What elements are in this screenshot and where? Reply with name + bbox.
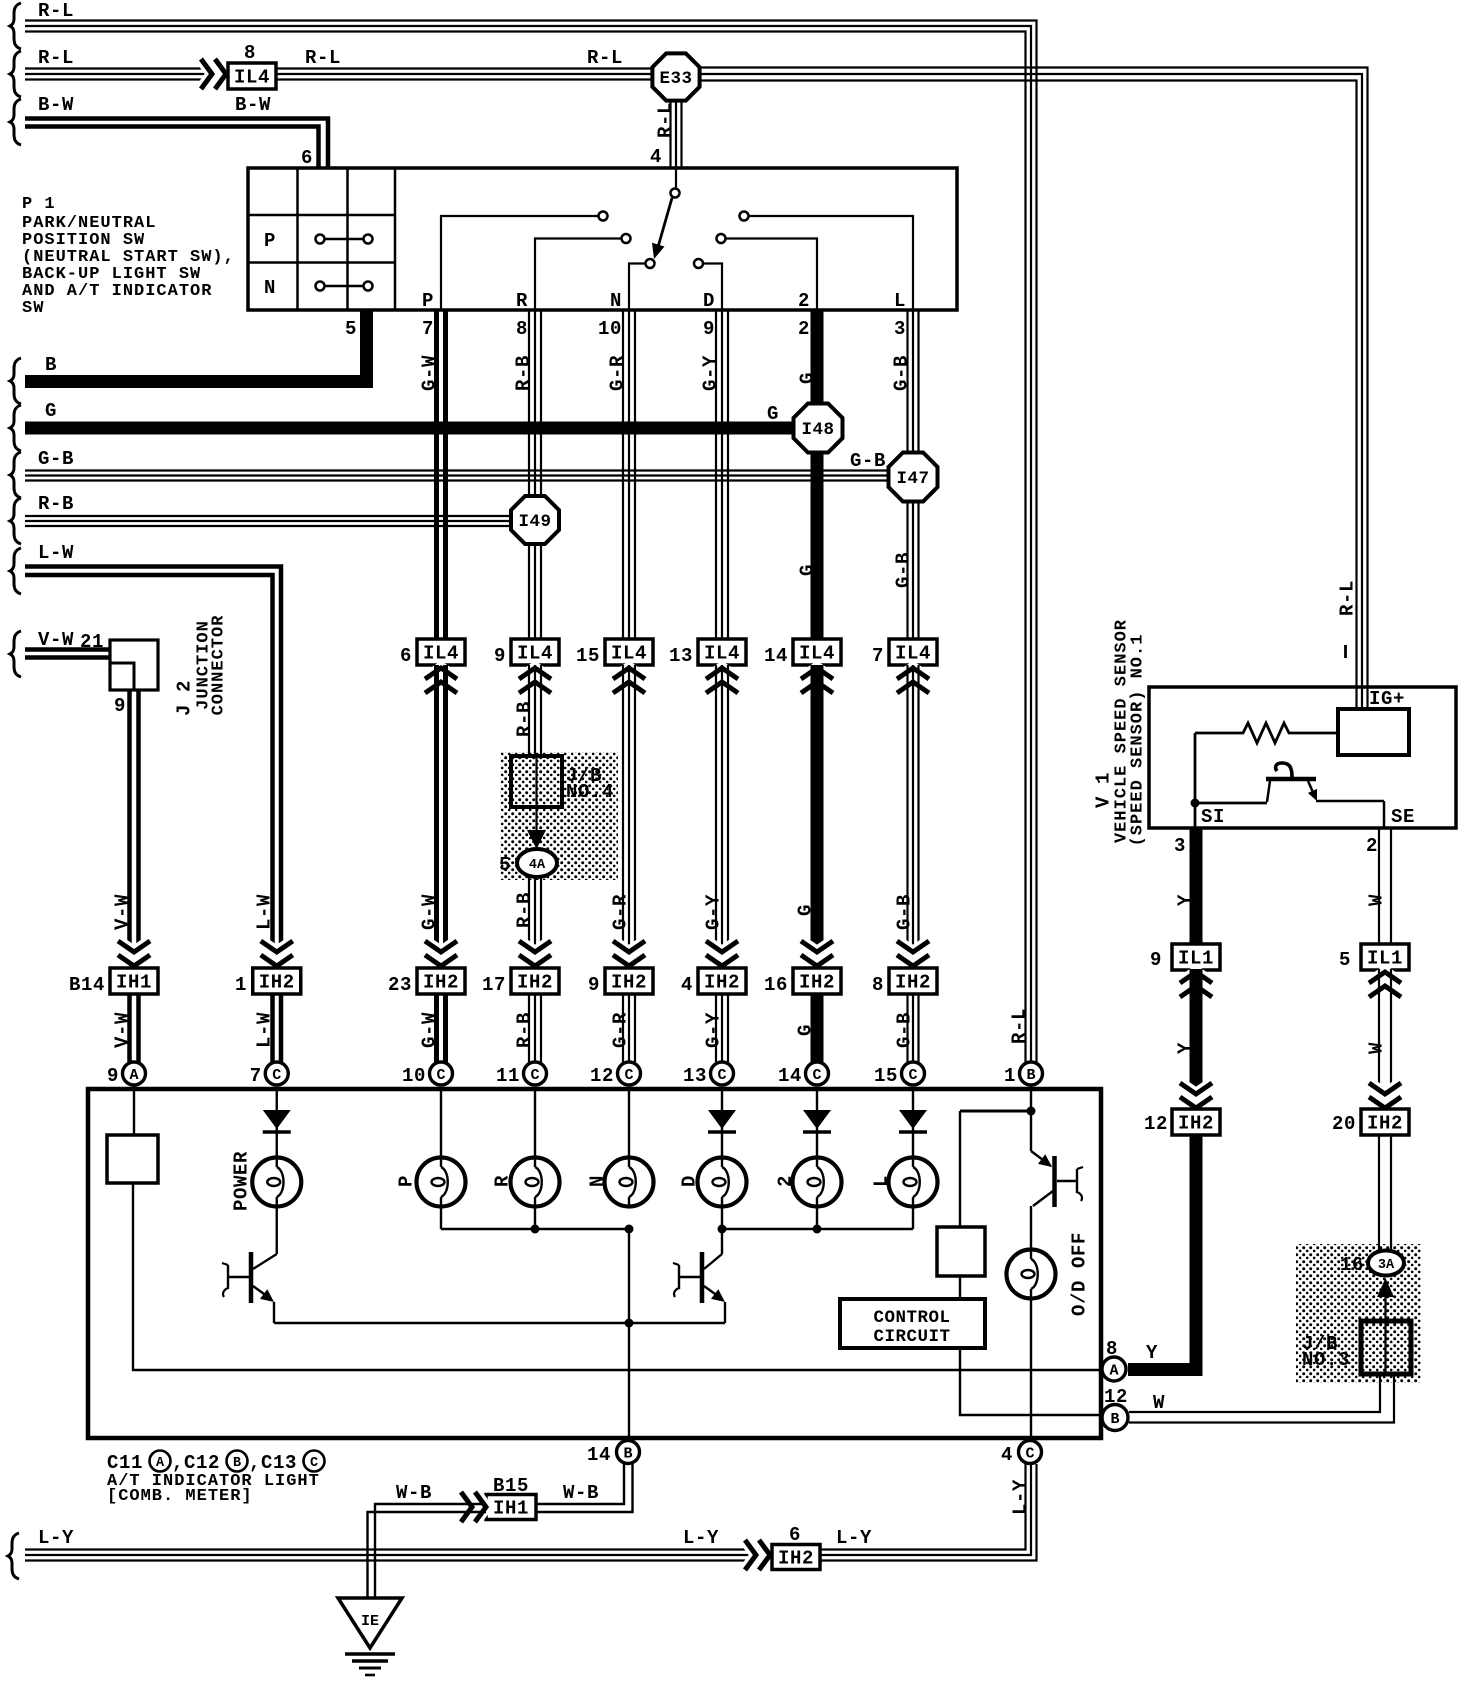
pin 15 label	[576, 645, 600, 667]
arrows from IL1 pin9	[1180, 972, 1212, 997]
pin 5 label at 4A	[499, 854, 511, 876]
connector IL4 pin7	[889, 639, 937, 665]
wire L-W	[25, 567, 281, 969]
svg-text:B: B	[45, 354, 57, 376]
pin 9 IL4 label	[494, 645, 506, 667]
svg-text:V-W: V-W	[112, 1012, 134, 1048]
label VEHICLE SPEED SENSOR rotated	[1112, 619, 1131, 843]
svg-text:G-B: G-B	[38, 448, 74, 470]
svg-text:14: 14	[778, 1065, 802, 1087]
label G-W rotated mid	[419, 894, 441, 930]
svg-text:6: 6	[400, 645, 412, 667]
wire Q2 emitter to N column	[629, 1322, 725, 1324]
terminal 14(B) meter bottom	[587, 1441, 640, 1467]
wire through J/B No.4	[535, 756, 537, 831]
svg-text:R-L: R-L	[305, 47, 341, 69]
label R-L row2	[38, 47, 74, 69]
label G before I48	[767, 403, 779, 425]
pin 20 label	[1332, 1113, 1356, 1135]
connector IL4 pin6	[417, 639, 465, 665]
wire W-B pin14 to IH1	[537, 1464, 633, 1512]
label G-B rotated mid	[894, 894, 916, 930]
junction block No.4 box	[511, 756, 562, 807]
lamp L	[889, 1158, 938, 1207]
wire R-L row 2 left segment	[25, 69, 228, 80]
grid label N	[264, 277, 276, 299]
connector IH2 pin1	[253, 968, 301, 994]
svg-text:IH2: IH2	[517, 972, 553, 994]
switch contact R	[622, 234, 631, 243]
pin 16 label	[764, 974, 788, 996]
svg-text:P: P	[422, 290, 434, 312]
label V-W rotated mid	[112, 894, 134, 930]
svg-text:SE: SE	[1391, 806, 1415, 828]
arrows into IH2-9	[613, 941, 645, 966]
wire lamp N feed	[628, 1089, 630, 1158]
svg-text:W: W	[1153, 1392, 1165, 1414]
switch wire P	[441, 216, 598, 310]
pin 4 label	[650, 146, 662, 168]
IG block	[1338, 709, 1409, 755]
svg-text:G-R: G-R	[610, 894, 632, 930]
terminal 11(C) meter top	[496, 1062, 547, 1087]
svg-text:17: 17	[482, 974, 506, 996]
pin 16 label at 3A	[1340, 1254, 1364, 1276]
pin 9 label under J2	[114, 695, 126, 717]
label V-W rotated low	[112, 1012, 134, 1048]
label G-B before I47	[850, 450, 886, 472]
connector brace R-L row1	[10, 3, 21, 49]
svg-text:Y: Y	[1175, 894, 1197, 906]
label W rotated upper	[1366, 894, 1388, 906]
svg-text:L-Y: L-Y	[836, 1527, 872, 1549]
svg-text:C: C	[812, 1067, 821, 1084]
svg-text:B-W: B-W	[235, 94, 271, 116]
sensor V1 box	[1149, 687, 1456, 828]
wire SE to box edge	[1316, 801, 1384, 828]
wire V-W IH1 to meter	[130, 994, 139, 1062]
grid contact row P	[316, 235, 373, 244]
diode L	[899, 1089, 927, 1158]
svg-text:L-W: L-W	[38, 542, 74, 564]
wire G-R IL4 to IH2	[623, 665, 635, 968]
arrows into IH1	[118, 941, 150, 966]
switch contact 2	[717, 234, 726, 243]
svg-text:G-Y: G-Y	[703, 894, 725, 930]
svg-text:5: 5	[1339, 949, 1351, 971]
svg-text:8: 8	[1106, 1338, 1118, 1360]
svg-text:P: P	[396, 1175, 418, 1187]
arrows from IL1 pin5	[1369, 972, 1401, 997]
wire G	[25, 422, 820, 435]
combination meter box	[88, 1089, 1101, 1438]
svg-text:2: 2	[775, 1175, 797, 1187]
arrows into IH2-20	[1369, 1083, 1401, 1108]
label J/B NO.4	[566, 765, 614, 803]
svg-text:(SPEED SENSOR) NO.1: (SPEED SENSOR) NO.1	[1128, 634, 1147, 847]
svg-text:G-W: G-W	[419, 894, 441, 930]
switch contact N	[646, 259, 655, 268]
svg-text:7: 7	[250, 1065, 262, 1087]
svg-text:AND A/T INDICATOR: AND A/T INDICATOR	[22, 282, 212, 301]
label J/B NO.3	[1302, 1333, 1350, 1371]
svg-text:8: 8	[872, 974, 884, 996]
label J 2 rotated	[174, 680, 196, 716]
lamp D	[698, 1158, 747, 1207]
svg-text:R-B: R-B	[513, 355, 535, 391]
bus D-2-L	[718, 1206, 914, 1234]
svg-text:L-W: L-W	[254, 894, 276, 930]
label G-B left	[38, 448, 74, 470]
wire L-Y to pin 4(C)	[820, 1464, 1037, 1561]
connector IL1 pin9	[1172, 944, 1220, 970]
junction E33	[652, 53, 699, 100]
svg-text:P: P	[264, 230, 276, 252]
label R-L rotated at E33 drop	[655, 102, 677, 138]
svg-text:15: 15	[576, 645, 600, 667]
label G-Y rotated low	[703, 1012, 725, 1048]
junction I47	[889, 453, 938, 502]
svg-text:13: 13	[669, 645, 693, 667]
svg-text:10: 10	[402, 1065, 426, 1087]
arrows from IL4 pin13	[706, 668, 738, 693]
pin 6 IH2 label	[789, 1524, 801, 1546]
label G-B rotated low	[894, 1012, 916, 1048]
svg-text:R-B: R-B	[514, 701, 536, 737]
svg-text:Y: Y	[1146, 1342, 1158, 1364]
arrows into IH2-4	[706, 941, 738, 966]
label L-W left	[38, 542, 74, 564]
label N rotated	[587, 1175, 609, 1187]
svg-text:A: A	[156, 1456, 165, 1471]
svg-text:20: 20	[1332, 1113, 1356, 1135]
svg-text:3: 3	[1174, 835, 1186, 857]
svg-text:CIRCUIT: CIRCUIT	[873, 1327, 950, 1347]
svg-text:R-B: R-B	[514, 1012, 536, 1048]
label B-W at turn	[235, 94, 271, 116]
label R-B left	[38, 493, 74, 515]
wire G-B horizontal	[25, 471, 892, 481]
arrows from IL4 pin6	[425, 668, 457, 693]
svg-text:B14: B14	[69, 974, 105, 996]
svg-text:I47: I47	[896, 469, 929, 489]
svg-text:IG+: IG+	[1369, 688, 1405, 710]
label B	[45, 354, 57, 376]
connector brace G	[10, 405, 21, 451]
connector IH2 pin16	[793, 968, 841, 994]
svg-text:C: C	[624, 1067, 633, 1084]
label JUNCTION rotated	[194, 620, 213, 710]
svg-text:G-R: G-R	[610, 1012, 632, 1048]
svg-text:R-L: R-L	[1009, 1008, 1031, 1044]
svg-text:P 1: P 1	[22, 195, 56, 214]
svg-text:2: 2	[798, 318, 810, 340]
svg-text:IH2: IH2	[895, 972, 931, 994]
svg-text:14: 14	[587, 1444, 611, 1466]
wire R-L E33 to IG+	[700, 68, 1368, 710]
label R rotated	[492, 1175, 514, 1187]
svg-text:B: B	[1110, 1411, 1119, 1428]
pin 6 IL4 label	[400, 645, 412, 667]
connector IH2 pin17	[511, 968, 559, 994]
switch wire 2	[726, 239, 817, 311]
wire Y IL1 to IH2	[1190, 969, 1203, 1110]
svg-text:6: 6	[789, 1524, 801, 1546]
svg-text:V 1: V 1	[1093, 772, 1115, 808]
svg-text:R-L: R-L	[655, 102, 677, 138]
wire G-W switch to IL4	[437, 310, 446, 639]
terminal 12(C) meter top	[590, 1062, 641, 1087]
svg-text:12: 12	[1144, 1113, 1168, 1135]
svg-text:I49: I49	[518, 512, 551, 532]
pin 3 label	[1174, 835, 1186, 857]
arrows from IL4 pin14	[801, 668, 833, 693]
label W-B right	[563, 1482, 599, 1504]
wire R-B IH2 to meter	[529, 994, 541, 1062]
arrows into IH2-1	[261, 941, 293, 966]
connector IH2 pin12	[1172, 1109, 1220, 1135]
terminal 10(C) meter top	[402, 1062, 453, 1087]
terminal 9(A) meter top	[107, 1062, 146, 1087]
P1 internal grid	[248, 168, 395, 310]
wire G-B IH2 to meter	[908, 994, 919, 1062]
bus P-R-N	[441, 1206, 634, 1234]
svg-text:4: 4	[650, 146, 662, 168]
svg-text:IH2: IH2	[611, 972, 647, 994]
svg-text:11: 11	[496, 1065, 520, 1087]
connector IH2 pin23	[417, 968, 465, 994]
svg-text:12: 12	[590, 1065, 614, 1087]
svg-text:G: G	[45, 400, 57, 422]
wire G switch to IL4	[811, 310, 824, 639]
connector IL4 (instrument panel)	[228, 63, 276, 89]
label G-B rotated top	[891, 355, 913, 391]
pin 13 label	[669, 645, 693, 667]
arrows into IH2-12	[1180, 1083, 1212, 1108]
label IG+	[1369, 688, 1405, 710]
svg-text:SI: SI	[1201, 806, 1225, 828]
connector IL4 pin13	[698, 639, 746, 665]
svg-text:L: L	[871, 1175, 893, 1187]
switch contact P	[599, 212, 608, 221]
label B-W left	[38, 94, 74, 116]
svg-text:12: 12	[1104, 1386, 1128, 1408]
svg-text:15: 15	[874, 1065, 898, 1087]
svg-text:IH2: IH2	[704, 972, 740, 994]
diode POWER	[263, 1089, 291, 1158]
wire L-W IH2 to meter	[273, 994, 282, 1062]
pin 12 IH2 label	[1144, 1113, 1168, 1135]
svg-text:NO.3: NO.3	[1302, 1349, 1350, 1371]
svg-text:G-B: G-B	[893, 552, 915, 588]
wire G-B IL4 to IH2	[908, 665, 919, 968]
arrows from IL4 pin7	[897, 668, 929, 693]
terminal 1(B) meter top	[1004, 1062, 1043, 1087]
svg-text:9: 9	[703, 318, 715, 340]
svg-text:R-L: R-L	[38, 47, 74, 69]
svg-text:5: 5	[499, 854, 511, 876]
svg-text:R-B: R-B	[514, 892, 536, 928]
pin B14 label	[69, 974, 105, 996]
connector IH2 pin6 bottom	[772, 1545, 820, 1570]
svg-text:9: 9	[1150, 949, 1162, 971]
fuse 3A oval	[1368, 1251, 1404, 1276]
label L rotated	[871, 1175, 893, 1187]
terminal numbers	[345, 318, 906, 340]
connector IH2 pin8	[889, 968, 937, 994]
arrows into IL4	[201, 59, 226, 89]
svg-text:R-L: R-L	[1337, 580, 1359, 616]
svg-text:D: D	[679, 1175, 701, 1187]
svg-text:2: 2	[798, 290, 810, 312]
pin 21 label	[80, 631, 104, 653]
svg-text:G: G	[795, 904, 817, 916]
label G rotated top	[797, 372, 819, 384]
svg-text:C: C	[1025, 1446, 1034, 1463]
pin 1 label	[235, 974, 247, 996]
label G-W rotated low	[419, 1012, 441, 1048]
svg-text:IH2: IH2	[423, 972, 459, 994]
terminal 15(C) meter top	[874, 1062, 925, 1087]
transistor V1 pickup	[1266, 763, 1317, 802]
node O/D branch	[1027, 1107, 1036, 1116]
label Y rotated upper	[1175, 894, 1197, 906]
wire G-Y IH2 to meter	[716, 994, 728, 1062]
svg-text:V-W: V-W	[38, 629, 74, 651]
svg-text:B-W: B-W	[38, 94, 74, 116]
svg-text:4: 4	[681, 974, 693, 996]
svg-text:13: 13	[683, 1065, 707, 1087]
diode 2	[803, 1089, 831, 1158]
wire R-B 4A to IH2	[529, 877, 541, 968]
wire G-W IL4 to IH2	[437, 665, 446, 968]
wire G-B switch to IL4	[908, 310, 919, 639]
svg-text:8: 8	[516, 318, 528, 340]
diode D	[708, 1089, 736, 1158]
wire lamp R feed	[534, 1089, 536, 1158]
pin 8 IH2 label	[872, 974, 884, 996]
svg-text:B: B	[623, 1446, 632, 1463]
pin 23 label	[388, 974, 412, 996]
control block square	[937, 1227, 985, 1276]
arrow into 3A	[1377, 1278, 1394, 1372]
svg-text:L-Y: L-Y	[683, 1527, 719, 1549]
label L-W rotated low	[254, 1012, 276, 1048]
wire N column to pin 14(B)	[625, 1229, 634, 1441]
switch pivot contact	[671, 189, 680, 198]
lamp 2	[793, 1158, 842, 1207]
label G-R rotated low	[610, 1012, 632, 1048]
switch wire D	[704, 264, 723, 311]
transistor Q2 (D driver)	[673, 1229, 725, 1323]
connector IH1 B14	[110, 968, 158, 994]
switch wire L	[749, 216, 913, 310]
svg-text:I48: I48	[801, 420, 834, 440]
svg-text:CONNECTOR: CONNECTOR	[209, 615, 228, 716]
connector IL4 pin15	[605, 639, 653, 665]
label L-W rotated mid	[254, 894, 276, 930]
svg-text:B: B	[233, 1456, 241, 1471]
svg-text:R-L: R-L	[587, 47, 623, 69]
svg-text:N: N	[587, 1175, 609, 1187]
label SI	[1201, 806, 1225, 828]
wire lamp P feed	[440, 1089, 442, 1158]
transistor Q1 (POWER driver)	[222, 1206, 277, 1323]
wire V-W	[25, 650, 112, 658]
wire G-R IH2 to meter	[623, 994, 635, 1062]
svg-text:R: R	[492, 1175, 514, 1187]
svg-text:8: 8	[244, 42, 256, 64]
wire W J/B3 to meter pin B	[1129, 1374, 1394, 1423]
svg-text:G: G	[797, 564, 819, 576]
shading J/B No.4	[500, 752, 618, 880]
svg-text:,C13: ,C13	[249, 1452, 297, 1474]
svg-text:IH2: IH2	[1367, 1113, 1403, 1135]
meter reference text	[107, 1451, 325, 1475]
wire G-Y switch to IL4	[716, 310, 728, 639]
svg-text:9: 9	[107, 1065, 119, 1087]
connector IH2 pin4	[698, 968, 746, 994]
label R-L rotated low	[1009, 1008, 1031, 1044]
wire W-B IH1 to ground	[368, 1504, 487, 1598]
svg-text:G-B: G-B	[894, 1012, 916, 1048]
label W rotated lower	[1366, 1042, 1388, 1054]
arrow into 4A	[527, 830, 546, 849]
svg-text:CONTROL: CONTROL	[873, 1308, 950, 1328]
label O/D OFF rotated	[1069, 1232, 1091, 1316]
svg-text:G-B: G-B	[850, 450, 886, 472]
svg-text:IH1: IH1	[116, 972, 152, 994]
switch contact D	[694, 259, 703, 268]
switch wire R	[535, 239, 621, 311]
wire Y IH2 to meter pin A	[1128, 1135, 1196, 1370]
arrows into IH1 B15	[461, 1492, 486, 1522]
connector IL4 pin14	[793, 639, 841, 665]
junction block No.3 box	[1361, 1321, 1411, 1374]
label A/T INDICATOR LIGHT	[107, 1472, 320, 1491]
pin 8 label	[244, 42, 256, 64]
label R-B rotated above J/B	[514, 701, 536, 737]
svg-text:G-Y: G-Y	[703, 1012, 725, 1048]
label R-B rotated top	[513, 355, 535, 391]
label POWER rotated	[231, 1151, 253, 1211]
svg-text:G: G	[767, 403, 779, 425]
label R-B rotated low	[514, 1012, 536, 1048]
arrows into IH2-8	[897, 941, 929, 966]
wire R-L E33 down to switch	[671, 99, 682, 168]
connector IH2 pin9	[605, 968, 653, 994]
wire W IH2 to 3A	[1379, 1135, 1391, 1252]
pin 9 IH2 label	[588, 974, 600, 996]
svg-text:16: 16	[1340, 1254, 1364, 1276]
svg-text:R-L: R-L	[38, 0, 74, 22]
terminal 12(B) meter right	[1102, 1386, 1128, 1431]
svg-text:G-R: G-R	[607, 355, 629, 391]
wire R-L IL4 to E33	[276, 69, 654, 80]
label V-W left	[38, 629, 74, 651]
label G-B rotated below I47	[893, 552, 915, 588]
wire branch to control	[960, 1111, 1031, 1227]
label G-R rotated top	[607, 355, 629, 391]
svg-text:R-B: R-B	[38, 493, 74, 515]
svg-text:E33: E33	[659, 69, 692, 89]
lamp P	[417, 1158, 466, 1207]
pin B15 label	[493, 1475, 529, 1497]
label COMB. METER	[107, 1487, 253, 1506]
pin 4 IH2 label	[681, 974, 693, 996]
svg-text:W: W	[1366, 1042, 1388, 1054]
svg-text:R: R	[516, 290, 528, 312]
